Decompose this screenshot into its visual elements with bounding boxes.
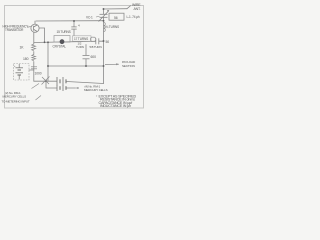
- wire VC-1 vertical bottom: [103, 18, 105, 21]
- transistor Q1: [31, 24, 39, 32]
- svg-text:1¾ TURNS: 1¾ TURNS: [104, 25, 119, 29]
- svg-text:1000: 1000: [35, 72, 42, 76]
- svg-text:VC-1: VC-1: [86, 16, 93, 20]
- wire 600 cap stub top: [85, 45, 87, 56]
- wire node line x103 lower: [103, 41, 105, 84]
- resistor 56 box: [109, 13, 124, 20]
- svg-text:INDUCTANCE IN μh: INDUCTANCE IN μh: [100, 104, 131, 108]
- wire top rail collector: [36, 20, 104, 22]
- capacitor C feedback: [71, 21, 80, 36]
- capacitor C 600: [83, 55, 90, 57]
- svg-text:L-1 .74 μh: L-1 .74 μh: [127, 15, 140, 19]
- junction feedback node: [73, 20, 75, 22]
- capacitor C 1000: [31, 66, 37, 68]
- switch / crossing marks: [42, 77, 50, 85]
- wire battery to right corner: [67, 82, 104, 84]
- junction crystal node: [47, 41, 49, 43]
- battery B2 metering cells: [57, 85, 66, 91]
- wire antenna rail: [104, 8, 128, 10]
- svg-text:180: 180: [23, 57, 29, 61]
- junction tank node: [103, 40, 105, 42]
- svg-text:SECTION: SECTION: [122, 64, 135, 68]
- wire VC-1 vertical top: [103, 9, 105, 14]
- wire 600 cap stub bottom: [85, 59, 87, 66]
- junction rail node left: [47, 65, 49, 67]
- wire lower rail y66: [48, 65, 104, 67]
- svg-text:50: 50: [106, 40, 110, 44]
- battery cells in box: [16, 64, 24, 80]
- junction collector node: [103, 20, 105, 22]
- leader to switch: [32, 84, 40, 89]
- notes block: [96, 94, 137, 108]
- svg-text:15 TURNS: 15 TURNS: [57, 30, 71, 34]
- label HIGH FREQUENCY TRANSISTOR: [3, 24, 31, 32]
- arrow to battery label: [76, 87, 79, 89]
- border frame: [5, 6, 144, 109]
- resistor R1 1K: [32, 44, 36, 51]
- svg-text:56: 56: [114, 16, 118, 20]
- coil loops: [90, 37, 95, 41]
- svg-text:CRYSTAL: CRYSTAL: [53, 44, 67, 48]
- wire bottom left horizontal: [34, 80, 57, 82]
- junction cap600 node: [85, 65, 87, 67]
- payload arrow: [105, 63, 119, 65]
- resistor R2 180: [32, 55, 36, 61]
- junction base node: [44, 41, 46, 43]
- wire battery box stub: [29, 69, 34, 71]
- svg-text:TURN: TURN: [76, 45, 84, 49]
- svg-text:MERCURY CELLS: MERCURY CELLS: [3, 94, 27, 98]
- label 17 TURNS boxed: [73, 36, 92, 41]
- svg-text:17 TURNS: 17 TURNS: [74, 37, 88, 41]
- wire transistor right lead: [39, 28, 44, 42]
- coil on node line: [104, 23, 106, 32]
- svg-text:TRANSISTOR: TRANSISTOR: [5, 28, 24, 32]
- junction antenna node: [103, 8, 105, 10]
- wire node line x103 mid: [103, 21, 105, 41]
- junction rail node right: [103, 65, 105, 67]
- crystal XTAL: [53, 36, 71, 49]
- junction switch node: [45, 80, 47, 82]
- wire crystal rail: [34, 41, 96, 42]
- wire emitter resistor chain: [33, 52, 35, 55]
- svg-text:ANT.: ANT.: [134, 7, 141, 11]
- variable capacitor VC-1: [99, 11, 110, 22]
- battery B1 (4) cells: [57, 77, 66, 86]
- wire crystal node vertical x48: [47, 42, 49, 81]
- wire metering branch: [46, 81, 57, 88]
- capacitor C 50: [95, 38, 97, 44]
- wire cap50 to node: [99, 40, 104, 42]
- svg-text:MERCURY CELLS: MERCURY CELLS: [84, 88, 108, 92]
- wire antenna lead tick: [127, 6, 131, 9]
- svg-text:TO METERING INPUT: TO METERING INPUT: [2, 100, 30, 104]
- wire transistor emitter lead: [33, 32, 35, 44]
- dashed battery box: [14, 64, 30, 81]
- wire transistor top lead: [34, 21, 36, 24]
- svg-text:600: 600: [91, 55, 97, 59]
- svg-text:5/8 TURN: 5/8 TURN: [90, 45, 102, 49]
